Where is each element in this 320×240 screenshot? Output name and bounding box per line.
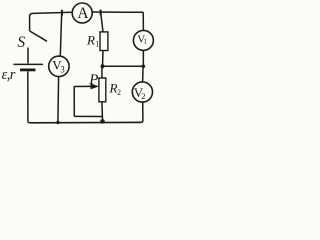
wire: R1 top lead from top wire	[101, 12, 103, 32]
junction dot: node between R1 and R2	[101, 64, 105, 68]
svg-text:A: A	[77, 5, 89, 22]
junction dot: R2 bottom node on bottom wire	[100, 119, 105, 124]
voltmeter V3	[49, 56, 69, 76]
switch S blade (open)	[30, 31, 47, 41]
wire: V3 branch from top wire down to V3	[60, 12, 61, 56]
wire: switch top terminal up to top-left corner and across to ammeter	[30, 12, 73, 31]
wire: wiper horizontal to R2 bottom lead	[74, 115, 102, 117]
svg-text:1: 1	[95, 39, 99, 48]
svg-text:3: 3	[60, 64, 65, 74]
rheostat R2 (resistor box)	[99, 78, 106, 102]
svg-text:1: 1	[143, 38, 147, 46]
svg-text:2: 2	[141, 91, 145, 101]
wire: V3 bottom stub down to bottom wire	[57, 76, 60, 122]
wire: R2 top lead from middle node	[101, 66, 103, 78]
rheostat wiper arrow pointing into R2	[74, 83, 99, 89]
junction tick: V3 branch tap on top wire	[61, 10, 63, 16]
junction dot: V3 branch on bottom wire	[56, 121, 59, 124]
resistor R1	[100, 32, 108, 51]
wire: middle horizontal between R1/R2 node and V1/V2 node	[103, 65, 144, 67]
label R2	[109, 80, 122, 97]
wire: right vertical from top-right corner down to V1	[142, 12, 144, 30]
svg-text:P: P	[88, 72, 98, 88]
wire: R2 bottom lead down to bottom wire	[101, 102, 104, 123]
ammeter A	[72, 3, 92, 23]
wire: left vertical from battery down to bottom-left corner	[28, 72, 30, 123]
svg-text:S: S	[17, 34, 25, 51]
switch S lower terminal lead down to battery	[27, 48, 29, 64]
label R1	[86, 33, 99, 49]
junction dot: node between V1 and V2	[142, 65, 146, 69]
wire: V2 bottom stub down to bottom-right corner	[141, 102, 143, 122]
svg-text:R: R	[86, 33, 95, 48]
voltmeter V1	[133, 30, 153, 50]
wire: middle node down to V2 top	[142, 66, 145, 82]
voltmeter V2	[132, 82, 152, 102]
wire: wiper vertical drop	[73, 86, 75, 116]
svg-text:2: 2	[117, 88, 121, 97]
svg-text:ε,r: ε,r	[2, 67, 16, 83]
battery positive plate (long thin)	[14, 63, 44, 65]
wire: V1 bottom stub down to middle node	[142, 50, 144, 66]
battery negative plate (short thick)	[20, 69, 36, 72]
wire: top side from ammeter to top-right corner	[92, 11, 143, 13]
wire: bottom side	[30, 121, 141, 123]
wire: R1 bottom lead to middle node	[102, 51, 105, 67]
junction tick: R1 branch tap on top wire	[100, 10, 102, 16]
